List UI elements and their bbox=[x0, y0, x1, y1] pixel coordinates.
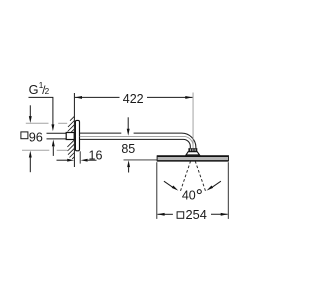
dimension 96: value label bbox=[21, 132, 28, 139]
dimension 85: bottom extension line bbox=[124, 159, 158, 161]
svg-text:96: 96 bbox=[29, 130, 43, 145]
flange escutcheon bbox=[75, 120, 79, 150]
dimension 16: arrows bbox=[57, 159, 97, 162]
dimension 16: right extension line bbox=[79, 151, 81, 163]
svg-text:85: 85 bbox=[121, 142, 135, 156]
shower joint knurled nut bbox=[189, 149, 197, 152]
G1/2 up arrow to pipe bottom bbox=[52, 140, 55, 156]
shower arm bottom line bbox=[80, 139, 191, 148]
shower joint collar bbox=[186, 152, 200, 155]
spray cone right dashed line bbox=[195, 161, 206, 192]
svg-text:16: 16 bbox=[89, 148, 103, 162]
inlet union nut bbox=[66, 133, 74, 140]
arm centerline bbox=[80, 136, 193, 146]
dimension 85: bottom arrow bbox=[127, 160, 130, 172]
svg-text:40: 40 bbox=[182, 189, 196, 203]
shower arm top line bbox=[80, 132, 182, 134]
extension line 422 right / pipe axis bbox=[192, 93, 194, 149]
spray angle left arrow bbox=[164, 181, 178, 190]
spray cone left dashed line bbox=[180, 161, 190, 192]
svg-text:422: 422 bbox=[123, 92, 144, 106]
dimension 85: top arrow bbox=[127, 117, 130, 135]
shower head slab bbox=[157, 155, 229, 161]
svg-text:2: 2 bbox=[45, 87, 50, 96]
dimension 96: top extension line bbox=[26, 122, 67, 124]
dimension 254: right extension line bbox=[227, 162, 229, 219]
svg-text:G: G bbox=[29, 83, 39, 97]
dimension 254: left extension line bbox=[156, 162, 158, 219]
svg-text:254: 254 bbox=[186, 207, 207, 222]
dimension 96: bottom arrow bbox=[29, 151, 32, 173]
G1/2 down arrowhead to pipe top bbox=[51, 124, 54, 131]
dimension 422 bbox=[75, 92, 193, 106]
wall hatching lower bbox=[67, 140, 74, 159]
G1/2 inlet pipe stub behind wall bbox=[47, 133, 67, 139]
shower arm outer bend bbox=[182, 133, 196, 148]
dimension 254: line and arrows bbox=[157, 213, 228, 216]
label G1/2 thread callout bbox=[29, 81, 50, 97]
dimension 96: top arrow bbox=[29, 105, 32, 123]
dimension 254: value label bbox=[177, 212, 184, 219]
G1/2 leader line bbox=[29, 97, 53, 125]
dimension 96: bottom extension line bbox=[22, 149, 67, 151]
wall plane line bbox=[73, 93, 75, 167]
wall hatching upper bbox=[67, 116, 74, 136]
spray angle right arrow bbox=[207, 181, 221, 190]
